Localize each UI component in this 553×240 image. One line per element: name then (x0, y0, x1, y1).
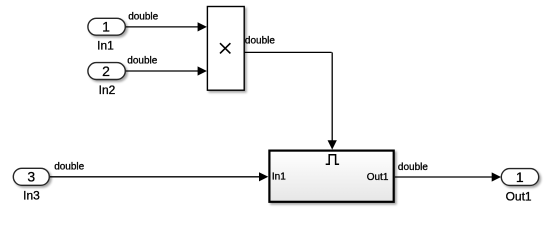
svg-text:In1: In1 (97, 39, 114, 53)
svg-text:In1: In1 (272, 172, 286, 183)
svg-text:double: double (245, 36, 275, 47)
svg-text:2: 2 (102, 63, 110, 79)
svg-text:double: double (54, 162, 84, 173)
svg-text:1: 1 (516, 169, 524, 185)
svg-text:Out1: Out1 (506, 190, 532, 204)
svg-text:3: 3 (27, 169, 35, 185)
svg-text:double: double (398, 162, 428, 173)
svg-text:double: double (127, 56, 157, 67)
svg-text:In3: In3 (23, 189, 40, 203)
svg-text:double: double (128, 12, 158, 23)
svg-text:1: 1 (102, 19, 110, 35)
svg-text:In2: In2 (99, 83, 116, 97)
svg-text:Out1: Out1 (367, 172, 389, 183)
